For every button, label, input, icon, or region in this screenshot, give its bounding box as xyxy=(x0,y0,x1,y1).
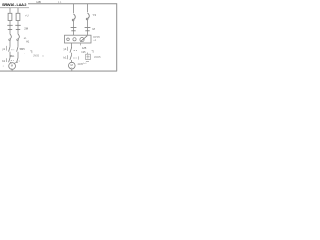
breaker hook Q3 xyxy=(74,14,76,19)
wire xyxy=(17,30,19,35)
wire xyxy=(9,21,11,26)
motor M5 xyxy=(69,62,76,69)
bracket mark xyxy=(92,51,94,53)
bracket mark xyxy=(30,51,32,53)
starter box U1 xyxy=(65,35,92,43)
wire xyxy=(9,30,11,35)
svg-text:Y3: Y3 xyxy=(93,13,97,17)
contact blade row1 xyxy=(70,46,73,49)
terminal bars xyxy=(71,27,77,29)
svg-text:b25: b25 xyxy=(82,51,87,54)
transformer box on wire 87.5 xyxy=(87,53,89,55)
box exit stub xyxy=(80,43,82,45)
fuse box F2 xyxy=(16,13,20,20)
wire below box left exit xyxy=(71,43,73,48)
motor M1 xyxy=(9,63,16,70)
svg-text:y1: y1 xyxy=(64,47,67,51)
wire xyxy=(9,8,11,14)
contact K xyxy=(9,45,12,48)
wire xyxy=(17,41,19,47)
motor stem xyxy=(71,69,73,71)
wire xyxy=(17,21,19,26)
svg-text:y1: y1 xyxy=(2,47,5,51)
contact K xyxy=(17,45,20,48)
row2 contact left xyxy=(9,56,12,59)
bottom border xyxy=(0,70,117,72)
wire into box xyxy=(87,31,89,35)
svg-text:+U: +U xyxy=(25,13,29,17)
row2 contact right xyxy=(17,56,20,59)
svg-text:JN05: JN05 xyxy=(33,54,40,58)
row2 dashes xyxy=(11,60,14,62)
svg-text:5M5: 5M5 xyxy=(20,47,26,51)
svg-text:1Z5: 1Z5 xyxy=(82,47,87,50)
link dashes row1 xyxy=(74,50,77,52)
contact hook xyxy=(18,34,19,39)
svg-text:4J05: 4J05 xyxy=(78,63,84,66)
svg-text:SRW16 - LAA 2: SRW16 - LAA 2 xyxy=(2,2,27,7)
converge wires xyxy=(10,62,12,63)
wire xyxy=(9,41,11,47)
terminal bars xyxy=(15,24,20,26)
row2 right tick xyxy=(78,56,80,59)
wire xyxy=(73,21,75,27)
breaker slash xyxy=(80,36,87,42)
breaker hook Q4 xyxy=(88,13,90,18)
svg-text:1-05: 1-05 xyxy=(36,1,41,4)
wire xyxy=(17,8,19,14)
wire xyxy=(87,4,89,13)
terminal bars xyxy=(85,27,91,29)
terminal bars xyxy=(7,24,12,26)
dashed link xyxy=(11,49,14,51)
svg-text:JN05: JN05 xyxy=(94,56,101,59)
stray dot xyxy=(42,55,43,56)
motor stem xyxy=(11,69,13,71)
wire xyxy=(73,4,75,14)
svg-text:b1: b1 xyxy=(64,56,67,60)
contact blade row2 xyxy=(70,54,73,57)
right border xyxy=(116,3,118,71)
wire xyxy=(87,20,89,27)
link dashes row2 xyxy=(73,57,76,59)
svg-text:DP05: DP05 xyxy=(93,35,100,39)
svg-text:4M-: 4M- xyxy=(10,55,14,58)
svg-text:2M: 2M xyxy=(24,26,29,30)
wire into box xyxy=(73,31,75,35)
wire87 end tick xyxy=(86,61,89,63)
top bus line xyxy=(28,3,117,5)
fuse box F1 xyxy=(8,13,12,20)
title underline xyxy=(0,7,29,9)
contact hook xyxy=(10,34,11,39)
